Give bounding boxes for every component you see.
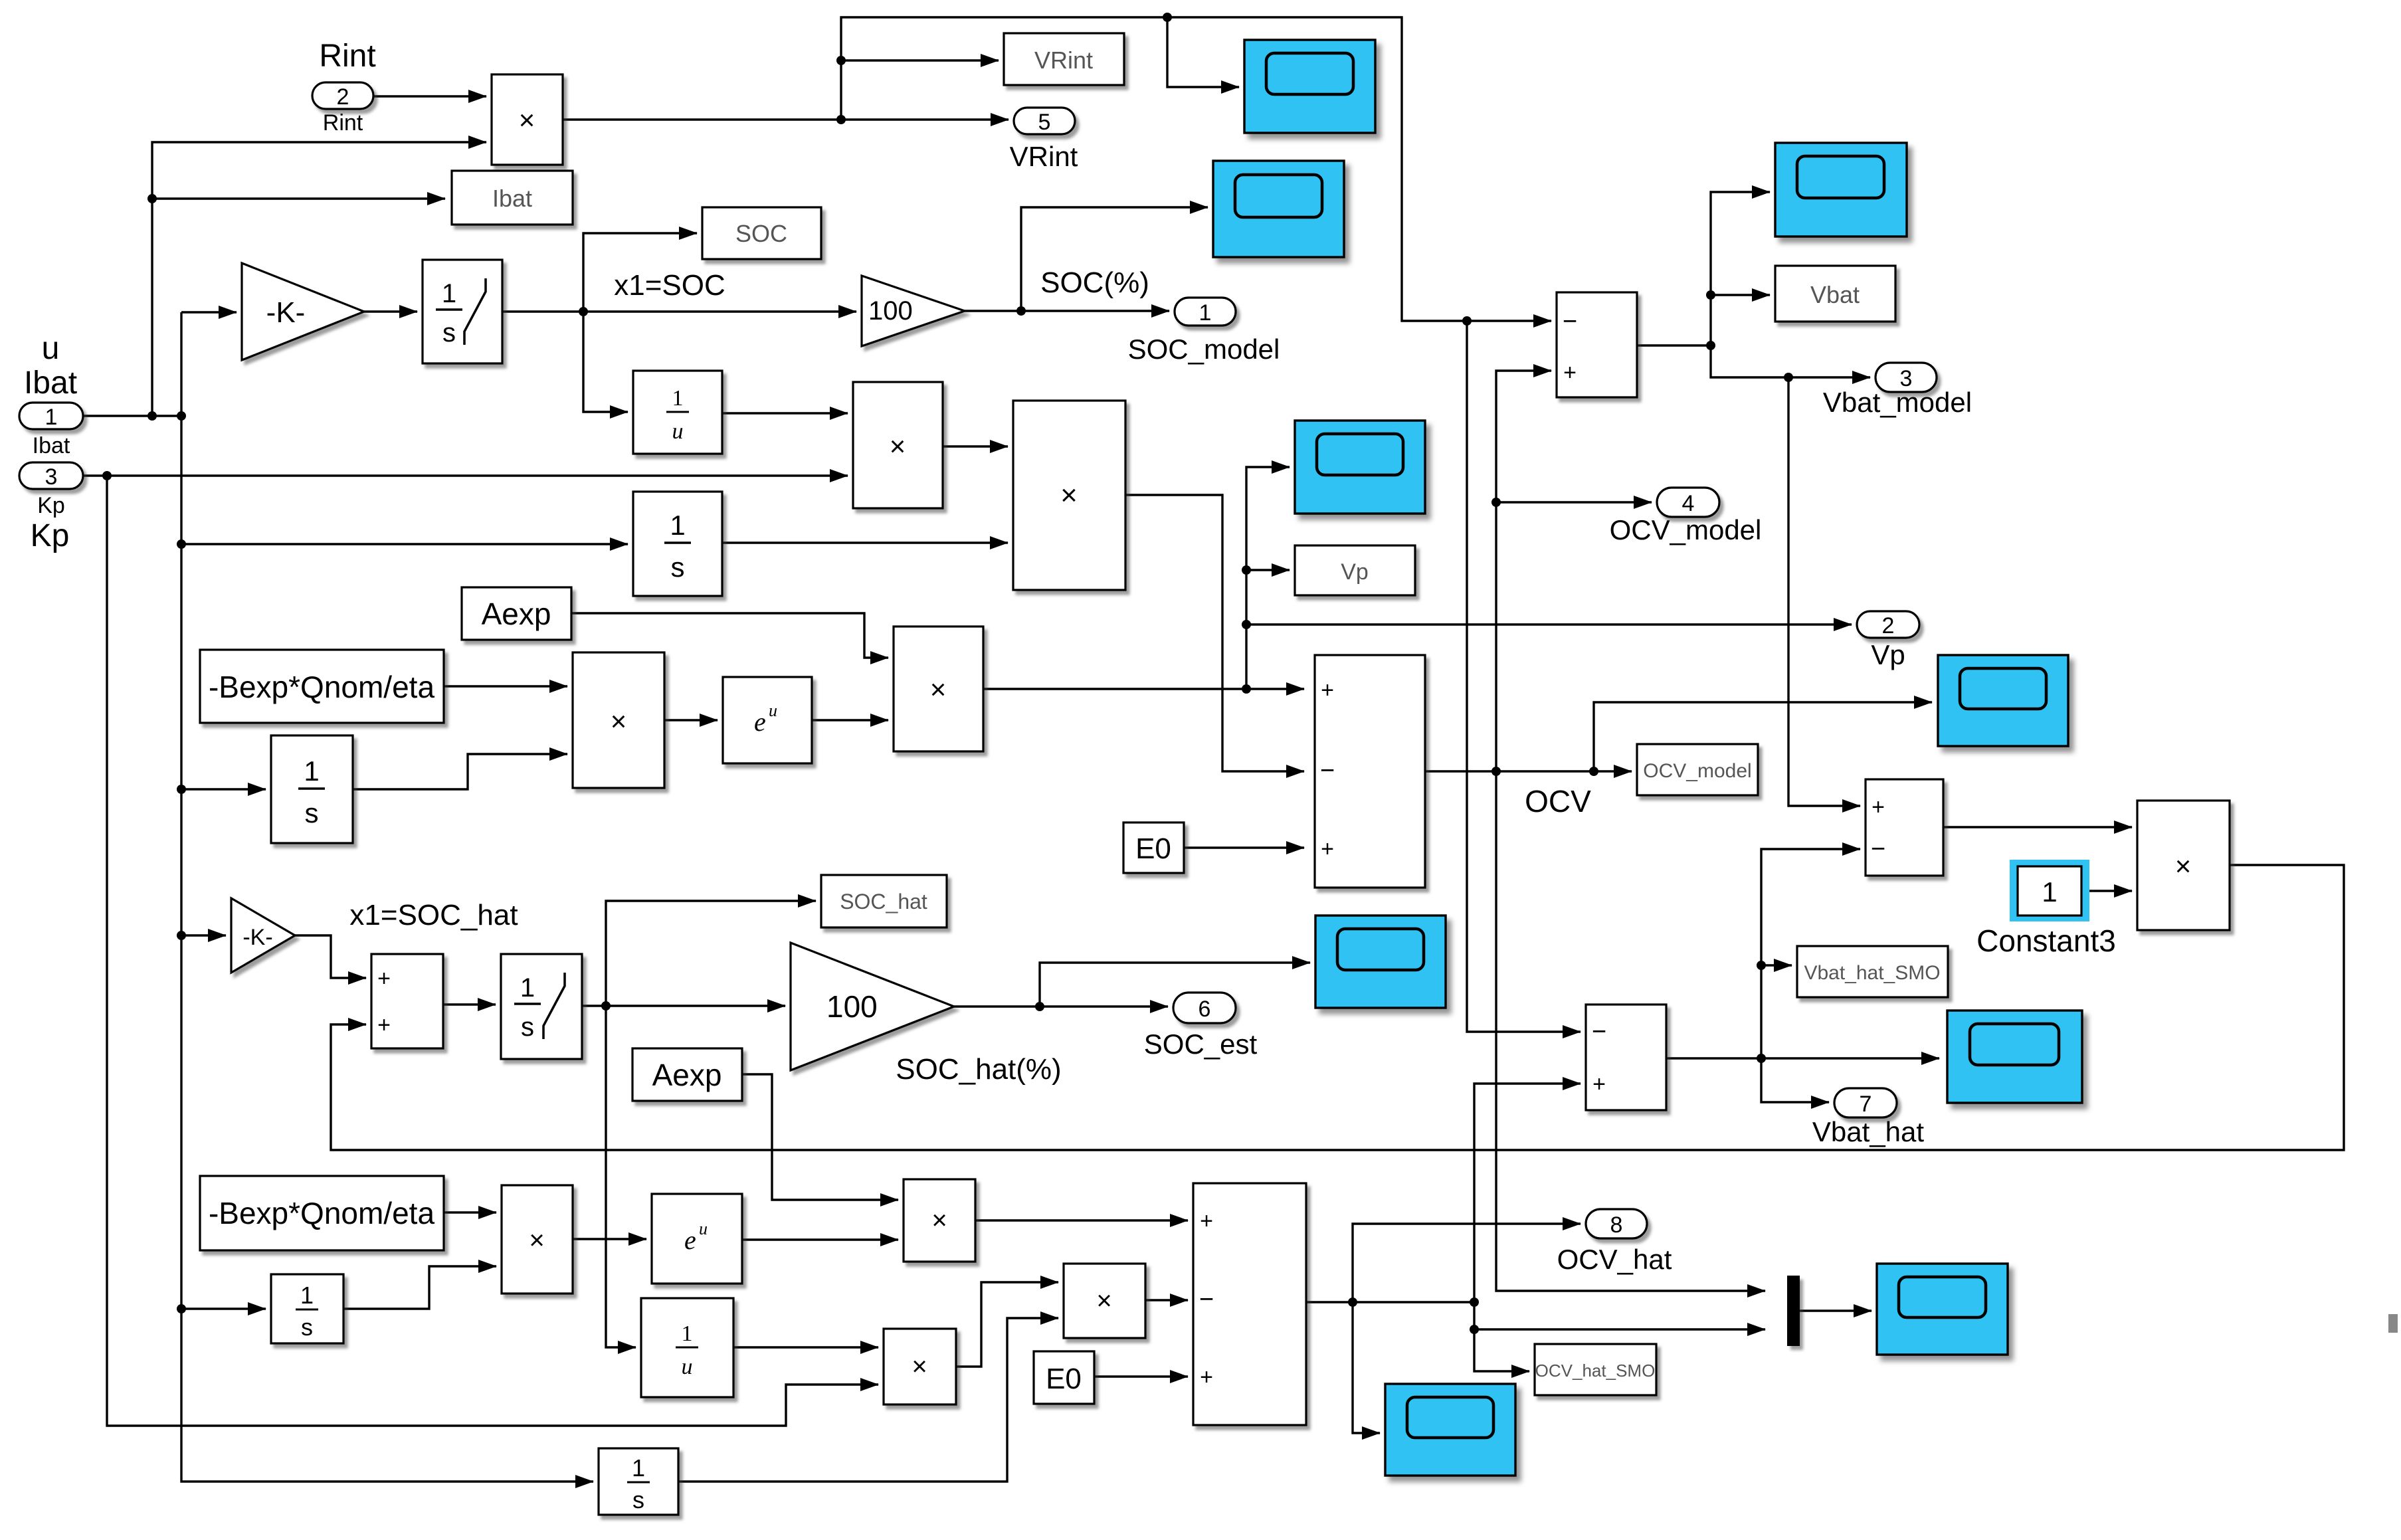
output port 1 SOC_model <box>1128 298 1280 365</box>
product P1 Rint*Ibat <box>492 74 563 165</box>
svg-text:+: + <box>1872 795 1885 820</box>
svg-text:4: 4 <box>1682 491 1695 516</box>
wire product P6 out to exp E2 <box>573 1238 646 1240</box>
input port 3 Kp <box>19 462 83 553</box>
wire Kp net: port3 across to product P2 input2, down and to product P9 input2 <box>83 471 878 1426</box>
svg-text:Aexp: Aexp <box>482 597 551 631</box>
wire exp E1 out to product P5 input2 <box>812 719 888 721</box>
wire node x1=SOC_hat: integrator I4 out to gain G100b, SOC_hat goto, 1/u U2 <box>582 901 816 1347</box>
goto Vp <box>1295 545 1415 595</box>
svg-text:×: × <box>890 431 906 462</box>
goto Ibat <box>452 171 573 225</box>
wire Aexp2 constant to product P7 input1 <box>742 1074 898 1200</box>
svg-text:1: 1 <box>632 1454 645 1482</box>
gain G100b <box>791 943 954 1070</box>
wire node OCV: sum SU2 out to OCV_model goto, scope S5, sum SU1 plus, port4 OCV_model, mux input1 <box>1425 371 1932 1291</box>
svg-text:OCV_model: OCV_model <box>1643 760 1751 782</box>
svg-text:e: e <box>754 707 766 737</box>
svg-text:SOC_est: SOC_est <box>1144 1028 1258 1060</box>
exp block E2 e^u <box>652 1194 742 1284</box>
wire integrator I6 out to product P8 input2 <box>678 1318 1058 1482</box>
wire Constant3 to final product P10 input2 <box>2089 890 2132 892</box>
wire 1/u U1 out to product P2 input1 <box>722 412 848 414</box>
svg-text:-K-: -K- <box>266 296 306 329</box>
svg-text:×: × <box>1060 479 1078 512</box>
sum SU6 OCV_hat <box>1193 1183 1306 1425</box>
svg-text:−: − <box>1320 757 1335 785</box>
sum SU5 Vbat_hat <box>1586 1005 1666 1110</box>
scope S4 <box>1295 421 1425 514</box>
svg-text:2: 2 <box>337 84 349 110</box>
svg-text:Vbat_hat_SMO: Vbat_hat_SMO <box>1804 962 1940 984</box>
goto OCV_hat_SMO <box>1535 1344 1656 1395</box>
product P8 <box>1064 1264 1145 1338</box>
svg-text:VRint: VRint <box>1034 47 1093 74</box>
svg-text:3: 3 <box>45 464 58 490</box>
scope S2 <box>1213 161 1344 257</box>
svg-text:SOC_hat(%): SOC_hat(%) <box>896 1053 1061 1086</box>
svg-text:Ibat: Ibat <box>24 365 77 401</box>
svg-text:6: 6 <box>1199 997 1211 1022</box>
svg-text:Vbat: Vbat <box>1810 281 1860 308</box>
svg-text:Vbat_model: Vbat_model <box>1823 387 1972 418</box>
input port 1 Ibat <box>19 331 83 458</box>
goto VRint <box>1004 33 1124 85</box>
svg-text:u: u <box>42 331 60 366</box>
scope S1 <box>1244 40 1375 133</box>
wire -Bexp*Qnom/eta to product P4 input1 <box>444 685 567 687</box>
wire product P7 out to sum SU6 plus top <box>975 1219 1188 1221</box>
svg-text:OCV_model: OCV_model <box>1610 514 1762 545</box>
svg-text:SOC_model: SOC_model <box>1128 334 1280 365</box>
wire E0 constant to sum SU2 plus bottom <box>1184 846 1304 848</box>
svg-text:100: 100 <box>826 989 878 1024</box>
wire mux M1 out to scope S9 <box>1799 1309 1872 1311</box>
svg-text:+: + <box>377 1012 391 1038</box>
scope S7 <box>1947 1011 2082 1103</box>
integrator I3 1/s <box>271 735 353 843</box>
integrator I2 1/s <box>633 492 722 596</box>
mux M1 <box>1787 1276 1800 1346</box>
svg-text:Ibat: Ibat <box>492 185 532 212</box>
product P2 <box>853 382 943 508</box>
svg-text:+: + <box>1200 1208 1213 1234</box>
svg-text:−: − <box>1871 835 1885 863</box>
wire node Vp: product P5 out to sum SU2 plus, scope S4, Vp goto, port2 Vp <box>983 467 1852 694</box>
wire node OCV_hat: sum SU6 out to port8, scope S8, sum SU5 plus, mux input2, OCV_hat_SMO goto <box>1306 1084 1765 1433</box>
svg-text:−: − <box>1199 1286 1214 1313</box>
svg-text:s: s <box>671 551 685 583</box>
product P5 <box>894 626 983 751</box>
1/u block U1 <box>633 371 722 454</box>
wire product P4 out to exp E1 <box>664 719 718 721</box>
svg-text:Vbat_hat: Vbat_hat <box>1812 1116 1924 1147</box>
svg-text:×: × <box>912 1352 927 1381</box>
product P9 <box>884 1329 956 1404</box>
wire node x1=SOC: integrator I1 out to gain G100a, SOC goto, 1/u block <box>502 233 856 412</box>
wire node Vbat_hat: sum SU5 out to scope S7, Vbat_hat_SMO goto, sum SU3 minus, port7 Vbat_hat <box>1666 849 1939 1102</box>
constant Aexp 2 <box>632 1048 742 1101</box>
wire gain K1 to integrator I1 <box>364 310 417 312</box>
svg-text:Vp: Vp <box>1341 559 1369 585</box>
constant -Bexp*Qnom/eta 2 <box>200 1176 444 1250</box>
svg-text:+: + <box>1563 360 1577 385</box>
svg-text:100: 100 <box>868 296 913 326</box>
wire exp E2 out to product P7 input2 <box>742 1238 898 1240</box>
node label x1=SOC_hat <box>349 899 518 931</box>
svg-text:1: 1 <box>1199 300 1212 326</box>
scope S8 <box>1385 1384 1515 1476</box>
gain G100a <box>862 276 965 346</box>
input port 2 Rint <box>312 39 376 136</box>
wire SOC(%) : gain G100a out to port1 SOC_model and scope S2 <box>965 207 1208 316</box>
wire product P9 out to product P8 input1 <box>956 1282 1058 1367</box>
constant Aexp <box>462 587 571 640</box>
wire sum SU4 out to integrator I4 <box>443 1003 496 1005</box>
svg-text:SOC: SOC <box>735 220 787 247</box>
svg-text:Kp: Kp <box>31 518 70 553</box>
svg-text:1: 1 <box>45 405 58 430</box>
svg-text:1: 1 <box>682 1321 693 1346</box>
wire SMO feedback: product P10 out down and left to sum SU4 plus2 <box>331 865 2344 1150</box>
svg-text:Rint: Rint <box>323 110 363 136</box>
constant -Bexp*Qnom/eta <box>200 650 444 723</box>
svg-text:-Bexp*Qnom/eta: -Bexp*Qnom/eta <box>209 1196 434 1230</box>
constant E0 2 <box>1034 1351 1094 1404</box>
gain K2 <box>231 898 295 973</box>
node label SOC(%) <box>1040 266 1149 299</box>
svg-text:×: × <box>1096 1286 1111 1315</box>
svg-text:SOC(%): SOC(%) <box>1040 266 1149 299</box>
wire gain K2 out to sum SU4 plus1 <box>295 935 366 978</box>
svg-text:Ibat: Ibat <box>33 433 70 458</box>
svg-text:s: s <box>632 1486 644 1513</box>
svg-text:1: 1 <box>670 510 685 541</box>
svg-text:s: s <box>305 797 319 828</box>
svg-text:×: × <box>529 1226 544 1255</box>
wire integrator I3 out to product P4 input2 <box>353 754 567 789</box>
integrator I5 1/s <box>271 1274 343 1343</box>
scope S9 <box>1877 1264 2008 1355</box>
goto SOC <box>702 207 821 259</box>
sum SU1 Vbat <box>1557 292 1637 397</box>
svg-text:1: 1 <box>2042 876 2057 908</box>
svg-text:x1=SOC_hat: x1=SOC_hat <box>349 899 518 931</box>
product P4 <box>573 652 664 788</box>
goto OCV_model <box>1637 744 1758 795</box>
svg-text:Vp: Vp <box>1871 639 1905 670</box>
product P6 <box>502 1185 573 1294</box>
svg-text:+: + <box>1321 678 1334 703</box>
svg-text:+: + <box>377 966 391 991</box>
svg-text:1: 1 <box>300 1282 314 1309</box>
sum SU3 <box>1866 779 1943 876</box>
output port 7 Vbat_hat <box>1812 1088 1924 1147</box>
svg-text:SOC_hat: SOC_hat <box>840 890 927 914</box>
svg-text:u: u <box>699 1219 708 1238</box>
exp block E1 e^u <box>723 677 812 763</box>
svg-text:×: × <box>519 104 535 136</box>
svg-text:1: 1 <box>304 755 319 787</box>
svg-text:OCV_hat_SMO: OCV_hat_SMO <box>1535 1361 1656 1381</box>
integrator I4 1/s with saturation <box>501 954 582 1059</box>
wire product P8 out to sum SU6 minus <box>1145 1299 1188 1301</box>
output port 8 OCV_hat <box>1557 1209 1672 1275</box>
svg-text:E0: E0 <box>1046 1363 1082 1395</box>
svg-text:8: 8 <box>1610 1212 1623 1238</box>
wire integrator I2 out to big product P3 input2 <box>722 541 1008 543</box>
wire Ibat vertical trunk x=273 with branches to gain K1, 1/s blocks <box>177 312 628 1482</box>
wire integrator I5 out to product P6 input2 <box>343 1266 496 1309</box>
constant Constant3 <box>1976 860 2116 958</box>
svg-text:2: 2 <box>1882 613 1895 638</box>
svg-text:×: × <box>930 674 947 705</box>
svg-text:OCV_hat: OCV_hat <box>1557 1244 1672 1275</box>
node label SOC_hat(%) <box>896 1053 1061 1086</box>
goto Vbat_hat_SMO <box>1797 946 1948 997</box>
wire Rint port2 to product P1 input1 <box>373 95 486 97</box>
output port 6 SOC_est <box>1144 993 1258 1060</box>
svg-text:x1=SOC: x1=SOC <box>614 269 725 302</box>
sum SU4 SOC_hat <box>371 954 443 1048</box>
svg-text:−: − <box>1592 1018 1606 1046</box>
scope S6 <box>1315 915 1446 1008</box>
svg-text:Kp: Kp <box>37 493 65 518</box>
svg-text:E0: E0 <box>1135 832 1171 865</box>
svg-text:+: + <box>1200 1365 1213 1390</box>
big product P3 <box>1013 401 1125 590</box>
svg-text:Constant3: Constant3 <box>1976 923 2116 958</box>
svg-text:u: u <box>769 701 777 720</box>
output port 2 Vp <box>1857 611 1919 670</box>
wire 1/u U2 out to product P9 input1 <box>733 1346 878 1348</box>
wire Aexp constant to product P5 input1 <box>571 613 888 658</box>
svg-text:u: u <box>672 419 684 444</box>
svg-text:s: s <box>301 1313 313 1341</box>
final product P10 <box>2137 801 2230 930</box>
svg-text:OCV: OCV <box>1525 784 1591 818</box>
scope S3 <box>1775 143 1907 237</box>
svg-text:VRint: VRint <box>1010 141 1078 172</box>
wire E0 2 constant to sum SU6 plus bottom <box>1094 1375 1188 1377</box>
output port 3 Vbat_model <box>1823 363 1972 418</box>
svg-text:-Bexp*Qnom/eta: -Bexp*Qnom/eta <box>209 670 434 704</box>
svg-text:+: + <box>1592 1072 1606 1097</box>
decoration right margin mark <box>2388 1314 2398 1333</box>
node label x1=SOC <box>614 269 725 302</box>
1/u block U2 <box>641 1298 733 1397</box>
node label OCV <box>1525 784 1591 818</box>
wire product P2 out to big product P3 input1 <box>943 445 1008 447</box>
svg-text:−: − <box>1563 308 1577 336</box>
wire sum SU3 out to final product P10 input1 <box>1943 826 2132 828</box>
svg-text:1: 1 <box>520 973 535 1003</box>
output port 4 OCV_model <box>1610 488 1762 545</box>
svg-text:-K-: -K- <box>242 925 272 950</box>
svg-text:e: e <box>684 1225 696 1255</box>
sum SU2 OCV <box>1315 655 1425 888</box>
svg-text:+: + <box>1321 836 1334 862</box>
product P7 <box>904 1179 975 1262</box>
svg-text:×: × <box>2175 850 2192 882</box>
svg-text:1: 1 <box>672 386 684 411</box>
wire VRint net: product P1 out to port5, VRint goto, scope S1, sum SU1 minus, sum SU5 minus <box>563 13 1581 1032</box>
svg-text:Rint: Rint <box>319 39 375 74</box>
svg-text:×: × <box>611 706 627 737</box>
svg-text:5: 5 <box>1038 110 1051 135</box>
svg-text:1: 1 <box>442 279 456 308</box>
scope S5 <box>1938 655 2068 746</box>
svg-text:s: s <box>442 318 456 347</box>
wire big product P3 out to sum SU2 minus input <box>1125 495 1304 771</box>
integrator I6 1/s <box>599 1448 678 1515</box>
wire -Bexp*Qnom/eta 2 to product P6 input1 <box>444 1211 496 1213</box>
svg-text:×: × <box>931 1206 947 1235</box>
wire Ibat net: port1 to junctions, up to product P1 input2, branch to Ibat goto <box>83 142 486 421</box>
gain K1 <box>242 263 364 360</box>
goto SOC_hat <box>821 875 947 927</box>
goto Vbat <box>1775 266 1895 322</box>
svg-text:u: u <box>682 1355 693 1379</box>
constant E0 <box>1123 822 1184 873</box>
svg-text:7: 7 <box>1860 1092 1872 1117</box>
wire SOC_hat(%): gain G100b out to port6 SOC_est and scope S6 <box>954 963 1310 1011</box>
integrator I1 1/s with saturation <box>423 260 502 363</box>
svg-text:s: s <box>521 1012 534 1042</box>
output port 5 VRint <box>1010 108 1078 172</box>
svg-text:Aexp: Aexp <box>652 1058 722 1092</box>
wire node Vbat_model: sum SU1 out to scope S3, Vbat goto, port3 Vbat_model, sum SU3 plus <box>1637 192 1870 806</box>
